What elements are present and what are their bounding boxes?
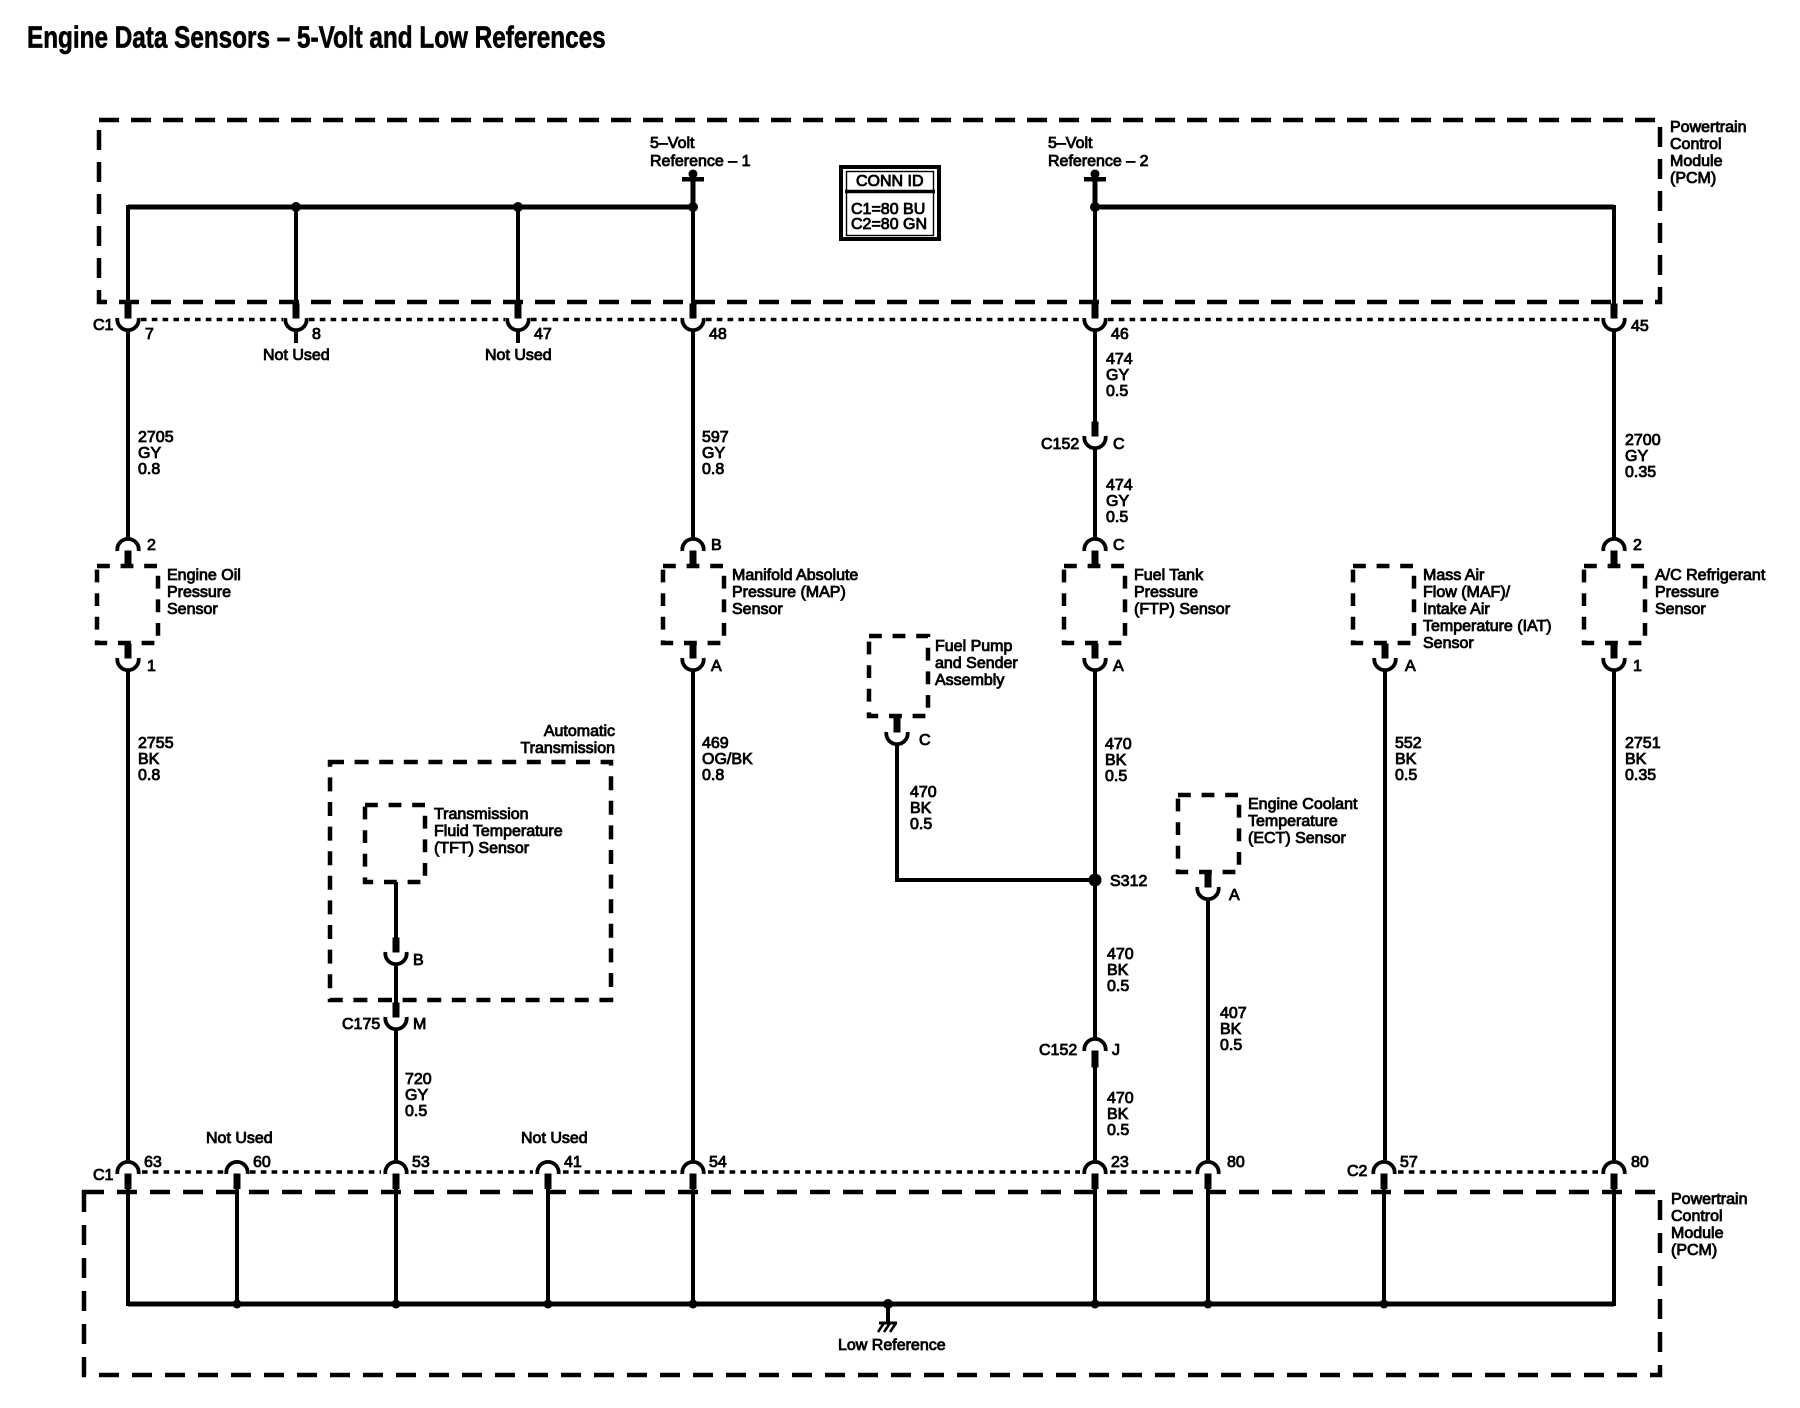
- 5-volt reference 2 symbol: [1084, 170, 1106, 213]
- svg-text:Powertrain: Powertrain: [1670, 119, 1746, 136]
- svg-text:1: 1: [147, 658, 156, 675]
- svg-text:and Sender: and Sender: [935, 655, 1018, 672]
- automatic transmission label: [520, 723, 615, 757]
- svg-text:Temperature: Temperature: [1248, 813, 1338, 830]
- svg-text:BK: BK: [1625, 751, 1647, 768]
- svg-text:CONN ID: CONN ID: [856, 173, 924, 190]
- AC sensor pin 1 connector: [1603, 644, 1624, 671]
- svg-text:Assembly: Assembly: [935, 672, 1004, 689]
- svg-text:Not Used: Not Used: [263, 347, 330, 364]
- svg-text:(PCM): (PCM): [1671, 1242, 1717, 1259]
- svg-text:(ECT) Sensor: (ECT) Sensor: [1248, 830, 1346, 847]
- svg-text:Pressure: Pressure: [167, 584, 231, 601]
- svg-text:Sensor: Sensor: [1423, 635, 1474, 652]
- wire label 470 BK 0.5 ftp: [1105, 736, 1132, 785]
- wire pin60 to low ref bus: [235, 1187, 239, 1304]
- svg-text:41: 41: [564, 1154, 582, 1171]
- svg-text:Module: Module: [1670, 153, 1723, 170]
- svg-text:Not Used: Not Used: [485, 347, 552, 364]
- svg-text:46: 46: [1111, 326, 1129, 343]
- svg-text:Pressure: Pressure: [1134, 584, 1198, 601]
- wire pin45 drop: [1612, 205, 1616, 304]
- AC sensor pin 2 connector: [1603, 539, 1624, 568]
- wire 470 BK fuel pump to S312: [897, 744, 1095, 880]
- FTP sensor label: [1134, 567, 1231, 618]
- svg-text:BK: BK: [1395, 751, 1417, 768]
- FTP sensor pin C connector: [1084, 539, 1105, 568]
- svg-text:A: A: [1229, 887, 1240, 904]
- wire label 474 GY 0.5 lower: [1106, 477, 1133, 526]
- ground low reference: [883, 1299, 893, 1309]
- pin 45 connector: [1603, 304, 1624, 331]
- svg-text:720: 720: [405, 1071, 432, 1088]
- wire 552 BK MAF to pin57: [1383, 670, 1387, 1160]
- MAP sensor pin A connector: [682, 644, 703, 671]
- svg-text:Pressure (MAP): Pressure (MAP): [732, 584, 846, 601]
- wire pin63 to low ref bus: [126, 1187, 130, 1306]
- wire 474 GY C152 to FTP sensor: [1093, 447, 1097, 538]
- svg-text:57: 57: [1400, 1154, 1418, 1171]
- svg-text:470: 470: [910, 784, 937, 801]
- svg-text:0.8: 0.8: [702, 461, 724, 478]
- wire 720 GY C175 to pin53: [394, 1028, 398, 1160]
- svg-text:63: 63: [144, 1154, 162, 1171]
- TFT sensor label: [434, 806, 563, 857]
- svg-text:Fuel Tank: Fuel Tank: [1134, 567, 1204, 584]
- svg-text:Automatic: Automatic: [544, 723, 615, 740]
- svg-text:Engine Oil: Engine Oil: [167, 567, 241, 584]
- svg-text:C: C: [1113, 436, 1125, 453]
- svg-text:407: 407: [1220, 1005, 1247, 1022]
- svg-text:B: B: [711, 537, 722, 554]
- svg-text:Low Reference: Low Reference: [838, 1337, 946, 1354]
- wire label 552 BK 0.5: [1395, 735, 1422, 784]
- fuel tank pressure sensor box: [1064, 566, 1125, 643]
- svg-text:J: J: [1112, 1042, 1120, 1059]
- wire pin23 to low ref bus: [1093, 1187, 1097, 1304]
- pin 48 connector: [682, 304, 703, 331]
- pin 80 AC connector: [1603, 1162, 1624, 1189]
- svg-text:Manifold Absolute: Manifold Absolute: [732, 567, 858, 584]
- 5-volt reference 1 symbol: [682, 170, 704, 213]
- MAF sensor label: [1423, 567, 1552, 652]
- svg-text:Intake Air: Intake Air: [1423, 601, 1490, 618]
- connector C175 pin M inline: [385, 1003, 406, 1030]
- svg-text:23: 23: [1111, 1154, 1129, 1171]
- svg-text:BK: BK: [1220, 1021, 1242, 1038]
- svg-text:0.5: 0.5: [1106, 383, 1128, 400]
- svg-text:Engine Coolant: Engine Coolant: [1248, 796, 1358, 813]
- wire label 470 BK 0.5 bottom: [1107, 1090, 1134, 1139]
- fuel pump pin C connector: [886, 718, 907, 745]
- wire pin41 to low ref bus: [546, 1187, 550, 1304]
- C1 bottom connector dotted line: [142, 1170, 1193, 1173]
- svg-text:2705: 2705: [138, 429, 174, 446]
- C1 top connector dotted line: [141, 318, 1602, 321]
- wire 2705 GY pin7 to sensor: [126, 330, 130, 538]
- wire pin57 to low ref bus: [1382, 1187, 1386, 1304]
- svg-text:48: 48: [709, 326, 727, 343]
- svg-text:2755: 2755: [138, 735, 174, 752]
- svg-text:Pressure: Pressure: [1655, 584, 1719, 601]
- svg-text:Reference – 2: Reference – 2: [1048, 153, 1149, 170]
- wire label 2700 GY 0.35: [1625, 432, 1661, 481]
- svg-text:0.35: 0.35: [1625, 464, 1656, 481]
- wire 474 GY pin46 to C152: [1093, 330, 1097, 422]
- wire label 2751 BK 0.35: [1625, 735, 1661, 784]
- pin 57 connector: [1373, 1162, 1394, 1189]
- pin 47 stub below: [516, 330, 520, 343]
- connector C152 pin J inline: [1084, 1039, 1105, 1068]
- svg-text:M: M: [413, 1016, 426, 1033]
- wire pin54 to low ref bus: [691, 1187, 695, 1304]
- junction dot bus2 x693: [689, 1300, 698, 1309]
- wire label 470 BK 0.5 pump: [910, 784, 937, 833]
- svg-text:C1: C1: [93, 1167, 114, 1184]
- svg-text:474: 474: [1106, 477, 1133, 494]
- MAP sensor box: [663, 566, 724, 643]
- junction dot bus x518: [513, 202, 523, 212]
- svg-text:5–Volt: 5–Volt: [650, 135, 695, 152]
- wire label 720 GY 0.5: [405, 1071, 432, 1120]
- svg-text:Transmission: Transmission: [520, 740, 615, 757]
- svg-text:Control: Control: [1670, 136, 1722, 153]
- low reference bus wire: [128, 1302, 1614, 1307]
- svg-text:45: 45: [1631, 318, 1649, 335]
- svg-text:Fluid Temperature: Fluid Temperature: [434, 823, 563, 840]
- TFT sensor box: [365, 805, 425, 882]
- PCM top module box: [99, 120, 1660, 302]
- svg-text:0.5: 0.5: [1220, 1037, 1242, 1054]
- svg-text:Mass Air: Mass Air: [1423, 567, 1485, 584]
- svg-text:2: 2: [1633, 537, 1642, 554]
- svg-text:BK: BK: [138, 751, 160, 768]
- pin 80 ECT connector: [1197, 1162, 1218, 1189]
- wire pin7 drop: [126, 205, 130, 304]
- svg-text:80: 80: [1631, 1154, 1649, 1171]
- wire 2755 BK sensor to pin63: [126, 670, 130, 1160]
- wire 469 OG/BK MAP to pin54: [691, 670, 695, 1160]
- svg-text:1: 1: [1633, 658, 1642, 675]
- svg-text:C1: C1: [93, 317, 114, 334]
- svg-text:474: 474: [1106, 351, 1133, 368]
- svg-text:60: 60: [253, 1154, 271, 1171]
- svg-text:S312: S312: [1110, 873, 1147, 890]
- svg-text:A/C Refrigerant: A/C Refrigerant: [1655, 567, 1766, 584]
- svg-text:Powertrain: Powertrain: [1671, 1191, 1747, 1208]
- svg-text:BK: BK: [910, 800, 932, 817]
- connector C152 pin C inline: [1084, 422, 1105, 449]
- junction dot bus x296: [291, 202, 301, 212]
- pin 47 connector: [507, 304, 528, 331]
- svg-text:Fuel Pump: Fuel Pump: [935, 638, 1012, 655]
- svg-text:(PCM): (PCM): [1670, 170, 1716, 187]
- pin 60 connector: [226, 1162, 247, 1189]
- svg-text:A: A: [711, 658, 722, 675]
- svg-text:A: A: [1405, 658, 1416, 675]
- pin 46 connector: [1084, 304, 1105, 331]
- svg-text:C2=80 GN: C2=80 GN: [851, 216, 927, 233]
- svg-text:GY: GY: [1106, 367, 1129, 384]
- wire 597 GY pin48 to MAP sensor: [691, 330, 695, 538]
- junction dot bus2 x1095: [1091, 1300, 1100, 1309]
- svg-text:(TFT) Sensor: (TFT) Sensor: [434, 840, 530, 857]
- fuel pump and sender assembly box: [869, 636, 928, 716]
- MAF pin A connector: [1374, 644, 1395, 671]
- MAP sensor pin B connector: [682, 539, 703, 568]
- svg-text:470: 470: [1107, 946, 1134, 963]
- svg-text:Sensor: Sensor: [732, 601, 783, 618]
- engine oil sensor pin 1 connector: [117, 644, 138, 671]
- MAF IAT sensor box: [1353, 566, 1414, 643]
- svg-text:54: 54: [709, 1154, 727, 1171]
- svg-text:B: B: [413, 952, 424, 969]
- pin 63 connector: [117, 1162, 138, 1189]
- wire 470 BK C152 to pin23: [1093, 1066, 1097, 1160]
- bus wire 5v ref 1: [128, 205, 693, 210]
- svg-text:0.5: 0.5: [1107, 978, 1129, 995]
- engine coolant temperature sensor box: [1178, 795, 1239, 872]
- svg-text:7: 7: [145, 326, 154, 343]
- svg-text:(FTP) Sensor: (FTP) Sensor: [1134, 601, 1231, 618]
- wire 470 BK FTP to S312: [1093, 670, 1097, 1038]
- engine oil pressure sensor label: [167, 567, 241, 618]
- svg-text:Not Used: Not Used: [206, 1130, 273, 1147]
- svg-text:Not Used: Not Used: [521, 1130, 588, 1147]
- svg-text:GY: GY: [1625, 448, 1648, 465]
- svg-text:Transmission: Transmission: [434, 806, 529, 823]
- TFT pin B connector: [385, 938, 406, 965]
- svg-text:0.8: 0.8: [138, 767, 160, 784]
- svg-text:470: 470: [1105, 736, 1132, 753]
- svg-text:552: 552: [1395, 735, 1422, 752]
- svg-text:GY: GY: [1106, 493, 1129, 510]
- svg-text:0.8: 0.8: [138, 461, 160, 478]
- wire label 597 GY 0.8: [702, 429, 729, 478]
- pin 7 connector: [117, 304, 138, 331]
- MAP sensor label: [732, 567, 858, 618]
- svg-text:Sensor: Sensor: [1655, 601, 1706, 618]
- AC refrigerant pressure sensor box: [1584, 566, 1645, 643]
- C2 bottom connector dotted line: [1398, 1170, 1601, 1173]
- svg-text:GY: GY: [405, 1087, 428, 1104]
- svg-text:0.5: 0.5: [1106, 509, 1128, 526]
- CONN ID table: [841, 167, 939, 239]
- svg-text:BK: BK: [1107, 1106, 1129, 1123]
- wire label 469 OG/BK 0.8: [702, 735, 753, 784]
- wire 2751 BK AC to pin80: [1612, 670, 1616, 1160]
- svg-text:Reference – 1: Reference – 1: [650, 153, 751, 170]
- svg-text:80: 80: [1227, 1154, 1245, 1171]
- junction dot bus2 x1208: [1204, 1300, 1213, 1309]
- svg-text:BK: BK: [1107, 962, 1129, 979]
- svg-text:0.5: 0.5: [1395, 767, 1417, 784]
- wire pin47 drop: [516, 207, 520, 304]
- AC sensor label: [1655, 567, 1766, 618]
- engine oil pressure sensor box: [97, 566, 158, 643]
- svg-text:0.8: 0.8: [702, 767, 724, 784]
- svg-text:Flow (MAF)/: Flow (MAF)/: [1423, 584, 1511, 601]
- svg-text:470: 470: [1107, 1090, 1134, 1107]
- pin 41 connector: [537, 1162, 558, 1189]
- svg-text:Temperature (IAT): Temperature (IAT): [1423, 618, 1552, 635]
- ECT sensor label: [1248, 796, 1358, 847]
- wire label 407 BK 0.5: [1220, 1005, 1247, 1054]
- svg-text:Control: Control: [1671, 1208, 1723, 1225]
- svg-text:A: A: [1113, 658, 1124, 675]
- junction dot bus2 x1384: [1380, 1300, 1389, 1309]
- wire label 2705 GY 0.8: [138, 429, 174, 478]
- svg-text:0.35: 0.35: [1625, 767, 1656, 784]
- svg-text:8: 8: [312, 326, 321, 343]
- svg-text:2700: 2700: [1625, 432, 1661, 449]
- svg-text:2: 2: [147, 537, 156, 554]
- engine oil sensor pin 2 connector: [117, 539, 138, 568]
- wire label 470 BK 0.5 below S312: [1107, 946, 1134, 995]
- svg-text:OG/BK: OG/BK: [702, 751, 753, 768]
- wire label 474 GY 0.5 upper: [1106, 351, 1133, 400]
- fuel pump label: [935, 638, 1018, 689]
- svg-text:47: 47: [534, 326, 552, 343]
- pin 23 connector: [1084, 1162, 1105, 1189]
- wire 2700 GY pin45 to AC sensor: [1612, 330, 1616, 538]
- pin 8 connector: [285, 304, 306, 331]
- wire pin80 AC to low ref bus: [1612, 1187, 1616, 1306]
- wire TFT box to pin B: [394, 882, 398, 938]
- svg-text:C152: C152: [1041, 436, 1079, 453]
- svg-text:469: 469: [702, 735, 729, 752]
- wire label 2755 BK 0.8: [138, 735, 174, 784]
- wire pin80 ECT to low ref bus: [1206, 1187, 1210, 1304]
- wire pin53 to low ref bus: [394, 1187, 398, 1304]
- svg-text:C: C: [919, 732, 931, 749]
- automatic transmission box: [330, 762, 611, 1000]
- junction dot bus2 x396: [392, 1300, 401, 1309]
- pin 54 connector: [682, 1162, 703, 1189]
- svg-text:GY: GY: [702, 445, 725, 462]
- svg-text:C2: C2: [1347, 1163, 1368, 1180]
- svg-text:Module: Module: [1671, 1225, 1724, 1242]
- svg-text:C152: C152: [1039, 1042, 1077, 1059]
- PCM top label: [1670, 119, 1746, 187]
- PCM bottom module box: [84, 1192, 1660, 1375]
- svg-text:0.5: 0.5: [405, 1103, 427, 1120]
- wire pin8 drop: [294, 207, 298, 304]
- svg-text:Engine Data Sensors – 5-Volt a: Engine Data Sensors – 5-Volt and Low Ref…: [27, 20, 606, 54]
- junction dot bus2 x548: [544, 1300, 553, 1309]
- splice S312: [1089, 874, 1102, 887]
- junction dot bus2 x237: [233, 1300, 242, 1309]
- svg-text:5–Volt: 5–Volt: [1048, 135, 1093, 152]
- svg-text:Sensor: Sensor: [167, 601, 218, 618]
- svg-text:GY: GY: [138, 445, 161, 462]
- svg-text:53: 53: [412, 1154, 430, 1171]
- ECT pin A connector: [1197, 873, 1218, 900]
- svg-text:BK: BK: [1105, 752, 1127, 769]
- wire pin B to C175: [394, 964, 398, 1003]
- svg-text:C175: C175: [342, 1016, 380, 1033]
- wire pin48 drop: [691, 207, 695, 304]
- svg-text:C: C: [1113, 537, 1125, 554]
- wire 407 BK ECT to pin80: [1206, 899, 1210, 1160]
- svg-text:0.5: 0.5: [1107, 1122, 1129, 1139]
- FTP sensor pin A connector: [1084, 644, 1105, 671]
- svg-text:0.5: 0.5: [910, 816, 932, 833]
- PCM bottom label: [1671, 1191, 1747, 1259]
- svg-text:597: 597: [702, 429, 729, 446]
- pin 53 connector: [385, 1162, 406, 1189]
- svg-text:2751: 2751: [1625, 735, 1661, 752]
- pin 8 stub below: [294, 330, 298, 343]
- wire pin46 drop: [1093, 207, 1097, 304]
- bus wire 5v ref 2: [1095, 205, 1614, 210]
- svg-text:0.5: 0.5: [1105, 768, 1127, 785]
